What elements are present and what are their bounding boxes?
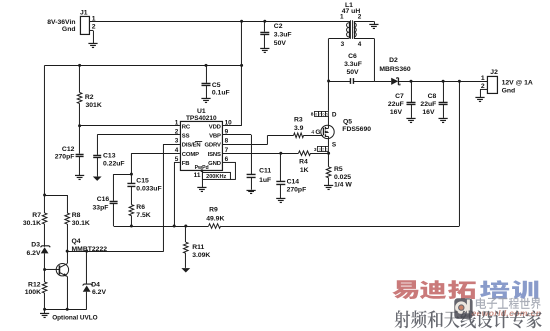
svg-text:FDS5690: FDS5690 xyxy=(342,126,371,133)
svg-text:33pF: 33pF xyxy=(93,204,109,211)
svg-text:30.1K: 30.1K xyxy=(23,220,41,227)
svg-text:MMBT2222: MMBT2222 xyxy=(72,246,108,253)
svg-text:R4: R4 xyxy=(299,158,308,165)
svg-text:D4: D4 xyxy=(91,281,100,288)
svg-text:C16: C16 xyxy=(97,196,110,203)
svg-text:3.3uF: 3.3uF xyxy=(344,61,362,68)
svg-text:D3: D3 xyxy=(31,241,40,248)
svg-text:3: 3 xyxy=(314,147,317,153)
svg-text:RC: RC xyxy=(182,124,191,130)
svg-text:16V: 16V xyxy=(422,109,435,116)
svg-text:4: 4 xyxy=(175,147,179,154)
svg-text:1/4 W: 1/4 W xyxy=(334,181,352,188)
svg-text:22uF: 22uF xyxy=(420,101,436,108)
svg-text:6.2V: 6.2V xyxy=(92,289,106,296)
svg-text:R8: R8 xyxy=(72,212,81,219)
svg-text:C5: C5 xyxy=(212,82,221,89)
svg-text:VDD: VDD xyxy=(209,124,221,130)
svg-text:S: S xyxy=(332,141,337,148)
svg-text:C13: C13 xyxy=(103,153,116,160)
svg-text:R6: R6 xyxy=(136,204,145,211)
svg-text:7.5K: 7.5K xyxy=(136,212,150,219)
svg-text:50V: 50V xyxy=(346,69,359,76)
svg-text:22uF: 22uF xyxy=(388,101,404,108)
svg-text:11: 11 xyxy=(194,172,201,179)
svg-text:1: 1 xyxy=(481,75,485,82)
svg-text:C8: C8 xyxy=(428,93,437,100)
svg-text:7: 7 xyxy=(319,111,321,116)
svg-text:GDRV: GDRV xyxy=(204,143,221,149)
svg-text:C6: C6 xyxy=(348,53,357,60)
svg-text:30.1K: 30.1K xyxy=(72,220,90,227)
svg-text:8: 8 xyxy=(311,112,314,118)
svg-text:5: 5 xyxy=(326,111,328,116)
svg-text:0.22uF: 0.22uF xyxy=(103,161,125,168)
svg-text:FB: FB xyxy=(182,161,190,167)
svg-text:0.025: 0.025 xyxy=(334,174,351,181)
svg-text:1K: 1K xyxy=(300,167,309,174)
svg-text:8: 8 xyxy=(315,111,317,116)
svg-text:50V: 50V xyxy=(274,40,287,47)
svg-text:R12: R12 xyxy=(28,281,41,288)
svg-text:2: 2 xyxy=(92,24,96,31)
svg-text:100K: 100K xyxy=(25,289,41,296)
svg-text:R11: R11 xyxy=(192,244,204,251)
svg-text:0.1uF: 0.1uF xyxy=(212,90,230,97)
svg-text:eeworld.com.cn: eeworld.com.cn xyxy=(472,308,542,318)
svg-text:G: G xyxy=(315,129,320,136)
svg-text:C12: C12 xyxy=(62,146,75,153)
svg-text:7: 7 xyxy=(225,147,229,154)
svg-text:J1: J1 xyxy=(80,9,88,16)
svg-text:3.3uF: 3.3uF xyxy=(274,32,292,39)
svg-text:6: 6 xyxy=(322,111,324,116)
svg-text:R3: R3 xyxy=(294,117,303,124)
svg-text:3: 3 xyxy=(175,138,179,145)
svg-text:49.9K: 49.9K xyxy=(206,215,224,222)
svg-text:Q4: Q4 xyxy=(72,238,81,245)
svg-text:R5: R5 xyxy=(334,166,343,173)
svg-text:VBP: VBP xyxy=(209,133,221,139)
svg-text:R9: R9 xyxy=(209,207,218,214)
svg-text:1: 1 xyxy=(340,14,344,21)
svg-text:C7: C7 xyxy=(395,93,404,100)
svg-text:5: 5 xyxy=(175,156,179,163)
svg-text:1uF: 1uF xyxy=(259,177,271,184)
svg-text:D2: D2 xyxy=(389,57,398,64)
svg-text:6.2V: 6.2V xyxy=(27,250,41,257)
svg-text:8: 8 xyxy=(225,138,229,145)
svg-text:2: 2 xyxy=(322,147,324,152)
svg-text:1: 1 xyxy=(92,15,96,22)
svg-text:4: 4 xyxy=(311,130,314,136)
svg-text:3: 3 xyxy=(341,41,345,48)
svg-text:4: 4 xyxy=(358,41,362,48)
svg-text:270pF: 270pF xyxy=(55,154,75,161)
svg-text:R7: R7 xyxy=(32,212,41,219)
svg-text:3.09K: 3.09K xyxy=(192,252,210,259)
svg-text:301K: 301K xyxy=(86,102,102,109)
svg-text:2: 2 xyxy=(358,14,362,21)
svg-text:200KHz: 200KHz xyxy=(206,174,226,180)
svg-text:TPS40210: TPS40210 xyxy=(186,115,217,122)
svg-text:Q5: Q5 xyxy=(343,119,352,126)
svg-text:MBRS360: MBRS360 xyxy=(379,66,411,73)
svg-text:3.9: 3.9 xyxy=(294,125,304,132)
svg-text:R2: R2 xyxy=(85,94,94,101)
svg-text:3: 3 xyxy=(319,147,321,152)
svg-text:1: 1 xyxy=(175,120,179,127)
svg-text:2: 2 xyxy=(175,129,179,136)
svg-text:Gnd: Gnd xyxy=(502,88,516,95)
svg-text:SS: SS xyxy=(182,133,190,139)
svg-text:6: 6 xyxy=(225,156,229,163)
svg-text:ISNS: ISNS xyxy=(208,152,221,158)
svg-text:DIS/EN: DIS/EN xyxy=(182,143,201,149)
svg-text:GND: GND xyxy=(208,161,221,167)
svg-text:16V: 16V xyxy=(390,109,403,116)
svg-text:0.033uF: 0.033uF xyxy=(136,186,161,193)
svg-text:Gnd: Gnd xyxy=(62,26,76,33)
svg-text:C2: C2 xyxy=(274,23,283,30)
svg-text:COMP: COMP xyxy=(182,152,199,158)
svg-text:270pF: 270pF xyxy=(287,186,307,193)
svg-text:1: 1 xyxy=(326,147,328,152)
svg-text:C15: C15 xyxy=(136,177,149,184)
svg-text:Optional UVLO: Optional UVLO xyxy=(52,314,97,321)
svg-text:C14: C14 xyxy=(287,178,300,185)
svg-text:C11: C11 xyxy=(259,167,271,174)
svg-text:J2: J2 xyxy=(490,69,498,76)
svg-text:D: D xyxy=(332,111,337,118)
svg-text:12V @ 1A: 12V @ 1A xyxy=(502,79,533,86)
